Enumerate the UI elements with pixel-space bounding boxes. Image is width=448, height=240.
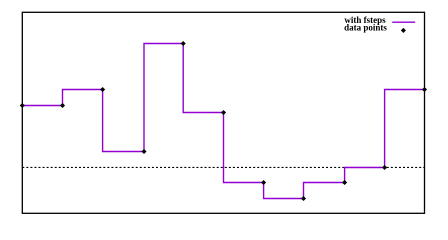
- legend point sample: [401, 28, 406, 33]
- plot border frame: [22, 12, 424, 213]
- data point markers: [20, 41, 427, 201]
- svg-text:data points: data points: [344, 23, 387, 33]
- legend line sample: [392, 21, 415, 23]
- dashed zero axis line: [22, 166, 424, 168]
- fsteps curve: [22, 44, 424, 199]
